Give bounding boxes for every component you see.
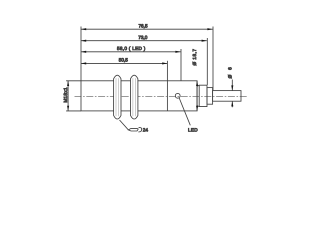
- extension line 50.5: [166, 61, 168, 81]
- M18x1 label: [63, 87, 68, 103]
- extension line 73.0: [206, 38, 208, 85]
- body M18 barrel: [81, 81, 197, 111]
- svg-text:24: 24: [143, 128, 149, 133]
- dimension 73.0 line: [81, 40, 207, 42]
- svg-text:73,0: 73,0: [138, 35, 148, 40]
- LED label: [188, 127, 198, 132]
- cable: [213, 91, 241, 102]
- dia 6 dimension: [231, 80, 233, 108]
- extension line face: [80, 27, 82, 81]
- dia 18.7 label: [192, 48, 197, 65]
- svg-text:50,5: 50,5: [119, 58, 129, 63]
- wrench size value 24: [143, 128, 149, 133]
- dia 18.7 dimension arrows: [196, 81, 198, 111]
- svg-text:Ø 18,7: Ø 18,7: [192, 48, 197, 65]
- clamp cylinder: [197, 85, 207, 106]
- gland nose: [207, 88, 213, 105]
- dimension 50.5 label: [119, 58, 129, 63]
- centerline: [75, 95, 248, 97]
- dia 6 label: [228, 65, 233, 78]
- dimension 76.5 label: [138, 23, 148, 28]
- nut N2: [131, 75, 138, 119]
- svg-text:Ø 6: Ø 6: [228, 65, 233, 78]
- dimension 58.0 LED label: [117, 46, 146, 51]
- extension line 76.5: [212, 27, 214, 91]
- svg-text:M18x1: M18x1: [63, 87, 68, 103]
- dimension 58.0 LED line: [81, 51, 181, 53]
- M18x1 dimension line: [66, 81, 81, 111]
- wrench leader: [120, 120, 129, 130]
- svg-text:LED: LED: [188, 127, 198, 132]
- dimension 76.5 line: [81, 28, 213, 30]
- svg-text:58,0 ( LED ): 58,0 ( LED ): [117, 46, 146, 51]
- wrench size symbol: [128, 128, 141, 132]
- dimension 50.5 line: [81, 62, 167, 64]
- dimension 73.0 label: [138, 35, 148, 40]
- LED leader: [179, 98, 190, 125]
- thread end line: [166, 81, 168, 111]
- nut N1: [114, 75, 121, 119]
- extension line 58.0: [180, 49, 182, 81]
- LED circle: [175, 93, 180, 98]
- svg-text:76,5: 76,5: [138, 23, 148, 28]
